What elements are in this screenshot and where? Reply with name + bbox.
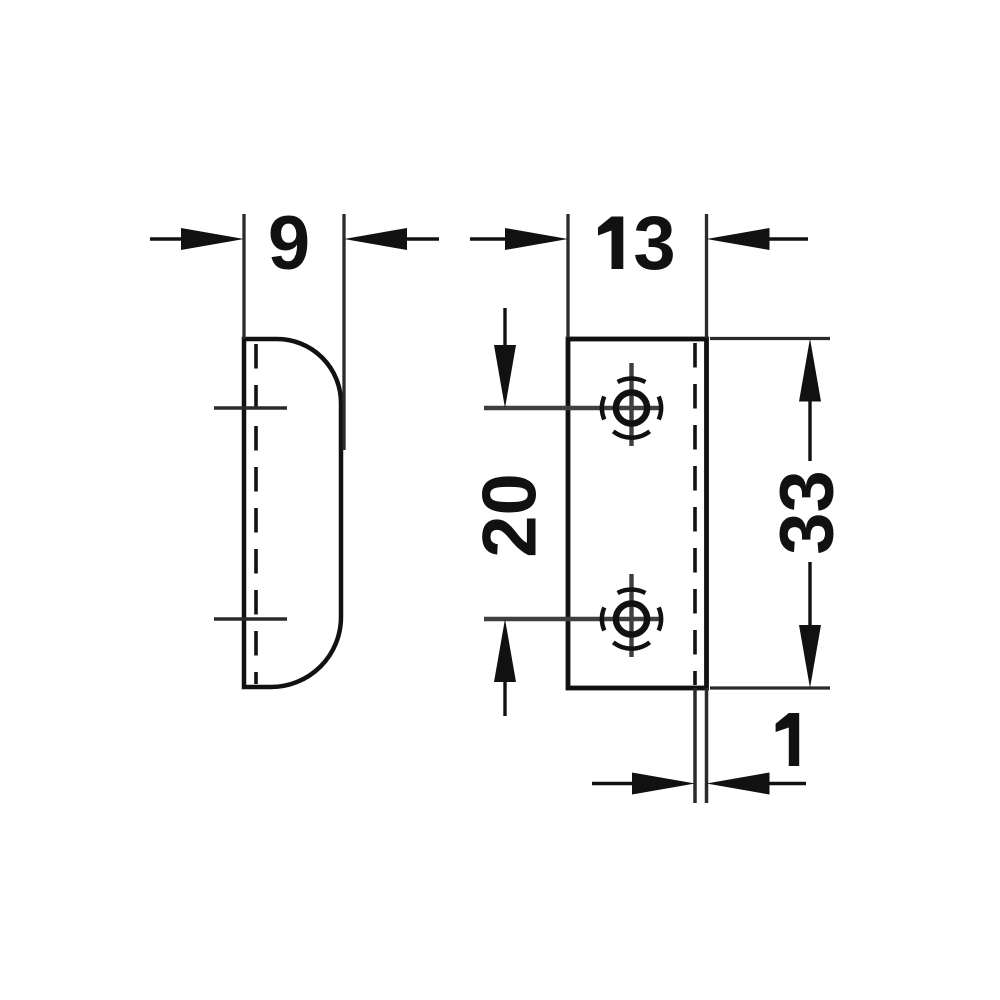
dim 20 dimension line bottom arrow	[494, 619, 516, 682]
hole H1 dashed thread arcs	[602, 379, 661, 438]
dim 1 left arrow	[592, 782, 640, 785]
dim 13 extension line right	[705, 214, 708, 338]
dim 9 extension line right	[342, 214, 345, 450]
dim 33 extension line bottom	[710, 686, 830, 689]
hole H2 circle	[616, 603, 647, 634]
svg-text:9: 9	[268, 201, 310, 286]
dim 9 extension line left	[242, 214, 245, 339]
dim 1 extension line right	[705, 688, 709, 803]
dim 13 extension line left	[566, 214, 569, 338]
dim 9 left arrow	[150, 237, 186, 240]
hole H2 dashed thread arcs	[602, 590, 661, 649]
svg-text:3: 3	[633, 201, 675, 286]
svg-text:33: 33	[765, 470, 850, 555]
hole H1 centerlines	[484, 406, 661, 410]
dim 13 right arrow	[707, 228, 770, 250]
dim 33 top arrow	[799, 339, 821, 402]
front view hidden dashed line	[693, 343, 697, 685]
side view centerline tick lower	[214, 617, 287, 621]
side view centerline tick upper	[214, 406, 287, 410]
svg-text:20: 20	[468, 473, 553, 558]
dim 1 right arrow	[707, 773, 770, 795]
dim 33 bottom arrow	[808, 562, 811, 626]
hole H2 centerlines	[484, 617, 661, 621]
side view hidden dashed line	[254, 344, 258, 684]
dim 9 right arrow	[344, 228, 407, 250]
dim 33 extension line top	[710, 337, 830, 340]
hole H1 circle	[616, 392, 647, 423]
dim 13 label	[598, 217, 623, 270]
side view outline	[244, 339, 341, 687]
front view outline	[568, 339, 707, 688]
dim 1 label	[776, 713, 800, 766]
dim 20 dimension line top arrow	[503, 308, 506, 352]
dim 1 extension line left	[693, 688, 697, 803]
dim 13 left arrow	[470, 237, 508, 240]
